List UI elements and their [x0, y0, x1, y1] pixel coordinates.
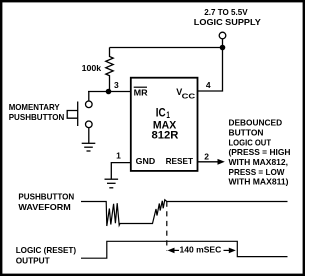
svg-text:RESET: RESET	[166, 156, 194, 166]
pin 2 wire with arrow	[198, 159, 225, 165]
waveform pushbutton trace	[81, 200, 288, 226]
pin label MR	[134, 87, 148, 97]
svg-text:PUSHBUTTON: PUSHBUTTON	[9, 112, 65, 122]
svg-text:3: 3	[114, 80, 119, 90]
svg-text:PUSHBUTTON: PUSHBUTTON	[18, 192, 74, 202]
svg-text:BUTTON: BUTTON	[229, 127, 264, 137]
ground (switch)	[82, 143, 96, 151]
svg-text:WAVEFORM: WAVEFORM	[18, 202, 70, 212]
label pushbutton waveform	[18, 192, 74, 212]
op-amp U1 IC box MAX812R	[131, 78, 198, 171]
svg-text:LOGIC SUPPLY: LOGIC SUPPLY	[194, 17, 261, 27]
svg-text:DEBOUNCED: DEBOUNCED	[229, 118, 283, 128]
waveform logic output trace	[81, 241, 288, 258]
label logic reset output	[16, 245, 77, 265]
dimension arrow right	[224, 248, 236, 254]
dashed timing line	[166, 202, 168, 251]
svg-text:2.7 TO 5.5V: 2.7 TO 5.5V	[204, 7, 248, 17]
supply terminal	[219, 32, 226, 39]
svg-text:2: 2	[204, 151, 209, 161]
svg-text:4: 4	[206, 80, 211, 90]
svg-text:(PRESS = HIGH: (PRESS = HIGH	[229, 147, 291, 157]
junction node 3	[106, 89, 112, 95]
svg-text:812R: 812R	[152, 129, 179, 141]
svg-text:WITH MAX811): WITH MAX811)	[229, 177, 289, 187]
svg-text:1: 1	[166, 110, 170, 120]
wire supply to resistor top	[110, 47, 223, 49]
node VCC supply label	[194, 7, 261, 27]
IC1 designator	[156, 107, 170, 120]
wire switch to ground	[88, 128, 90, 144]
wire supply down to pin 4	[198, 48, 223, 92]
wire terminal to junction	[222, 39, 224, 48]
wire node down to switch	[88, 92, 90, 102]
resistor R1 100k	[106, 48, 113, 92]
label momentary pushbutton	[9, 102, 65, 122]
dimension arrow left	[168, 248, 180, 254]
svg-text:IC: IC	[156, 107, 166, 119]
pin 1 wire	[111, 163, 131, 180]
svg-text:1: 1	[116, 151, 121, 161]
svg-text:140 mSEC: 140 mSEC	[180, 244, 222, 254]
svg-text:PRESS = LOW: PRESS = LOW	[229, 167, 286, 177]
label debounced output text	[229, 118, 291, 187]
svg-text:WITH MAX812,: WITH MAX812,	[229, 157, 289, 167]
wire node to MR pin	[88, 91, 131, 93]
svg-text:LOGIC OUT: LOGIC OUT	[229, 137, 272, 147]
svg-text:CC: CC	[182, 93, 196, 100]
ground (GND pin)	[105, 179, 119, 188]
pin label VCC	[176, 87, 195, 100]
svg-text:GND: GND	[136, 156, 156, 166]
pushbutton S1	[67, 101, 92, 128]
svg-text:100k: 100k	[82, 63, 102, 73]
svg-text:MOMENTARY: MOMENTARY	[9, 102, 60, 112]
junction supply node	[220, 45, 226, 51]
svg-text:OUTPUT: OUTPUT	[16, 255, 51, 265]
svg-text:MR: MR	[134, 88, 148, 98]
svg-text:LOGIC (RESET): LOGIC (RESET)	[16, 245, 77, 255]
